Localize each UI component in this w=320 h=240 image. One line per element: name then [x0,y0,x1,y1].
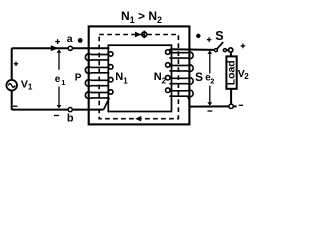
primary turn 3 outer bump [85,80,90,87]
plus V2 [241,44,246,49]
svg-text:e: e [55,74,61,85]
wire entry into primary [108,47,111,49]
primary turn 2 top line [91,66,110,68]
svg-text:N: N [115,71,123,83]
secondary turn 2 bottom line [169,70,188,72]
dot polarity secondary [196,34,200,38]
transformer core inner box (window) [108,45,171,111]
e2 arrow line (double headed) [207,50,212,105]
switch contact circle [223,49,226,52]
primary turn 3 bottom line [91,85,110,87]
primary tail to bottom wire [104,98,110,110]
primary turn 3 inner curl [108,77,113,82]
switch blade [217,42,223,49]
V1 plus sign [14,62,19,67]
secondary tail to bottom wire [188,96,190,106]
secondary turn 3 top line [169,77,188,79]
secondary winding (right limb) [166,49,194,106]
bottom wire secondary [189,105,229,107]
primary turn 4 top line [91,92,110,94]
plus at terminal a [55,39,60,44]
svg-text:1: 1 [61,78,65,87]
primary turn 2 outer bump [85,67,90,74]
svg-text:b: b [67,113,74,125]
label Load (rotated) [227,60,238,85]
stub right of node [233,105,236,107]
bottom wire primary [12,109,104,111]
label S (switch) [215,29,223,43]
svg-text:P: P [75,72,82,83]
minus e2 [208,110,213,112]
wire contact to terminal [226,49,228,51]
terminal b circle [68,108,72,112]
load box [226,56,236,88]
svg-text:1: 1 [123,76,128,85]
secondary turn 3 outer bump [188,78,193,85]
svg-text:S: S [215,29,223,43]
primary turn 4 inner curl [108,90,113,95]
terminal a circle [68,46,72,50]
wire load bottom to node [230,89,232,104]
flux arrow top (points right) [135,32,141,38]
svg-text:Load: Load [227,60,238,85]
primary turn 1 bottom line [91,59,110,61]
primary turn 4 bottom line [91,97,110,99]
label V1 [21,79,33,92]
secondary turn 3 inner curl [166,75,171,80]
wire entry into secondary [169,48,170,50]
primary turn 2 bottom line [91,72,110,74]
label S (secondary) [195,70,203,84]
svg-text:2: 2 [210,77,214,86]
secondary turn 2 inner curl [166,63,171,68]
svg-text:2: 2 [244,72,249,81]
plus e2 [207,37,212,42]
primary turn 3 top line [91,79,110,81]
wire source to bottom rail [11,90,13,109]
wire terminal to load top [230,52,232,56]
switch pivot circle [214,49,217,52]
svg-text:a: a [67,33,73,45]
secondary turn 2 outer bump [188,65,193,72]
secondary turn 4 top line [169,90,188,92]
flux arrow bottom (points left) [135,116,141,122]
V1 minus sign [13,105,18,107]
secondary turn 2 top line [169,65,188,67]
secondary turn 4 outer bump [188,90,193,97]
secondary turn 1 top line [169,52,188,54]
primary turn 4 outer bump [85,92,90,99]
svg-text:N1 > N2: N1 > N2 [121,9,162,25]
secondary turn 4 inner curl [166,88,171,93]
secondary terminal circle [229,48,233,52]
label a [67,33,73,45]
secondary turn 4 bottom line [169,95,188,97]
minus V2 [239,104,243,106]
top wire secondary [170,48,214,51]
secondary turn 1 outer bump [188,52,193,59]
flux symbol phi [142,31,147,39]
svg-text:S: S [195,70,203,84]
primary turn 2 inner curl [108,65,113,70]
top wire primary [12,47,109,49]
flux path dashed rectangle [99,35,178,119]
label b [67,113,74,125]
primary turn 1 outer bump [85,54,90,61]
primary turn 1 top line [91,54,110,56]
secondary turn 1 bottom line [169,57,188,59]
node circle bottom right [229,104,233,108]
svg-text:N: N [154,71,162,83]
transformer core outer box [89,26,190,124]
primary winding (left limb) [85,48,113,109]
primary turn 1 inner curl [108,52,113,57]
label V2 [238,68,250,81]
secondary turn 1 inner curl [166,50,171,55]
label N1 [115,71,128,85]
dot polarity primary [78,38,83,43]
label e2 [205,73,214,86]
AC source V1 [6,80,17,91]
e1 arrow line (double headed) [57,49,62,108]
current arrow on top wire [51,45,59,51]
title N1 > N2 [121,9,162,25]
minus at terminal b [54,115,59,117]
label e1 [55,74,66,87]
svg-text:V1: V1 [21,79,33,92]
label N2 [154,71,167,85]
secondary turn 3 bottom line [169,83,188,85]
label P [75,72,82,83]
wire source to top rail [11,48,13,80]
